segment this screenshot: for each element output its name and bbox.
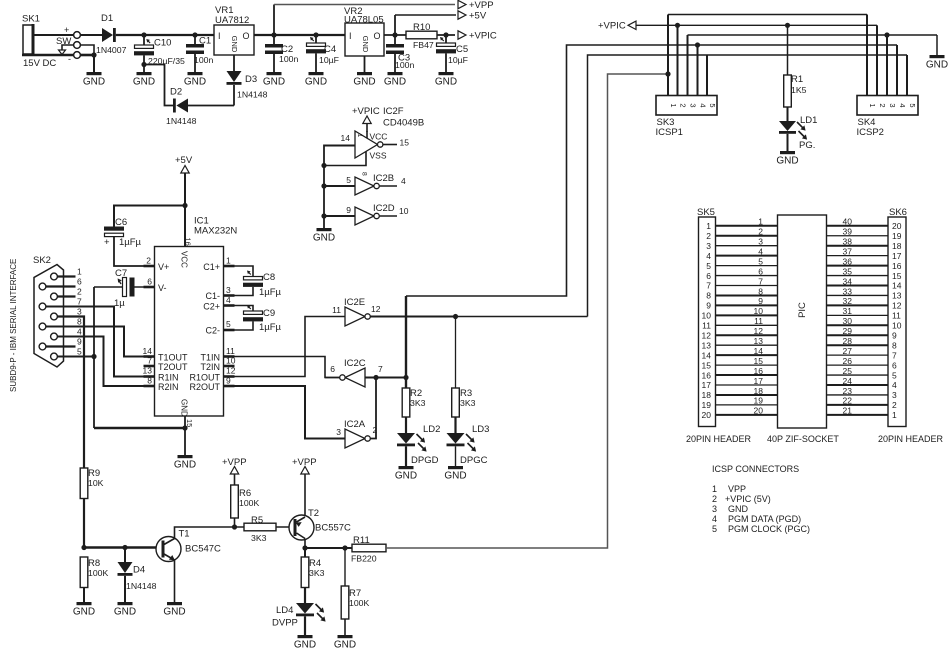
svg-text:2: 2 — [892, 400, 897, 410]
svg-text:GND: GND — [926, 60, 948, 71]
svg-text:1µFµ: 1µFµ — [259, 322, 282, 333]
svg-text:R5: R5 — [251, 515, 263, 526]
svg-text:17: 17 — [702, 380, 712, 390]
svg-text:LD1: LD1 — [800, 115, 817, 126]
capacitor C1 100n — [186, 35, 213, 72]
svg-text:O: O — [374, 31, 381, 41]
op-amp IC2F CD4049B spare gate — [324, 106, 424, 176]
svg-text:7: 7 — [378, 364, 383, 374]
diode D4 1N4148 — [118, 548, 157, 603]
switch SW — [56, 32, 80, 59]
ground LD3 — [444, 466, 466, 482]
svg-text:3K3: 3K3 — [251, 533, 267, 543]
svg-text:T2IN: T2IN — [200, 362, 220, 372]
svg-text:15: 15 — [400, 138, 410, 148]
svg-text:1: 1 — [226, 256, 231, 266]
svg-text:3: 3 — [712, 504, 717, 514]
capacitor C9 1uF — [224, 305, 282, 333]
svg-text:9: 9 — [758, 296, 763, 306]
svg-text:3: 3 — [758, 237, 763, 247]
svg-text:GND: GND — [184, 77, 206, 88]
svg-text:13: 13 — [143, 366, 153, 376]
svg-text:15: 15 — [185, 419, 194, 427]
svg-text:100K: 100K — [88, 568, 108, 578]
svg-text:100n: 100n — [194, 55, 213, 65]
svg-text:T2: T2 — [308, 508, 319, 519]
resistor R4 3K3 — [301, 548, 324, 588]
capacitor C8 1uF — [224, 271, 282, 299]
svg-text:4: 4 — [77, 327, 82, 337]
transistor Q T2 BC557C — [289, 508, 351, 548]
svg-text:C7: C7 — [115, 268, 127, 279]
connector SK3 ICSP1 — [656, 96, 718, 139]
svg-text:FB47: FB47 — [413, 40, 434, 50]
svg-text:100n: 100n — [279, 54, 298, 64]
svg-text:19: 19 — [754, 396, 764, 406]
svg-text:1: 1 — [706, 221, 711, 231]
svg-text:18: 18 — [754, 386, 764, 396]
svg-text:19: 19 — [892, 231, 902, 241]
svg-text:15: 15 — [702, 360, 712, 370]
svg-text:33: 33 — [843, 286, 853, 296]
svg-text:31: 31 — [843, 306, 853, 316]
node C4 — [313, 32, 318, 37]
svg-text:VPP: VPP — [728, 484, 746, 494]
pin 7 T2OUT — [147, 356, 188, 373]
svg-text:GND: GND — [73, 607, 95, 618]
svg-text:5: 5 — [712, 524, 717, 534]
pin 9 R2OUT to IC2A — [189, 376, 345, 439]
svg-text:D2: D2 — [170, 87, 182, 98]
svg-text:8: 8 — [361, 172, 368, 176]
svg-text:15: 15 — [892, 271, 902, 281]
svg-text:5: 5 — [226, 319, 231, 329]
svg-text:R1OUT: R1OUT — [189, 373, 220, 383]
svg-text:14: 14 — [143, 346, 153, 356]
svg-text:GND: GND — [313, 233, 335, 244]
svg-text:10: 10 — [702, 311, 712, 321]
svg-text:5: 5 — [892, 370, 897, 380]
diode D3 1N4148 — [227, 55, 268, 106]
node after D1 — [141, 32, 146, 37]
ground C1 — [184, 72, 206, 88]
svg-text:2: 2 — [706, 231, 711, 241]
ground R8 — [73, 602, 95, 618]
diode D2 1N4148 — [166, 87, 234, 127]
svg-text:39: 39 — [843, 227, 853, 237]
node C5 — [443, 32, 448, 37]
svg-text:FB220: FB220 — [351, 554, 377, 564]
svg-text:D3: D3 — [245, 74, 257, 85]
wire IC2E output PGC — [370, 314, 587, 319]
svg-text:3K3: 3K3 — [460, 398, 476, 408]
svg-text:GND: GND — [174, 460, 196, 471]
svg-text:C1-: C1- — [205, 291, 220, 301]
svg-text:16: 16 — [754, 366, 764, 376]
svg-text:ICSP1: ICSP1 — [656, 127, 683, 138]
svg-text:7: 7 — [892, 350, 897, 360]
wire ground bus C7 to IC1 pin15 — [94, 287, 188, 431]
wire +5V riser — [395, 15, 456, 35]
svg-text:GND: GND — [353, 77, 375, 88]
resistor R5 3K3 — [235, 515, 294, 543]
ground C4 — [305, 72, 327, 88]
svg-text:T1: T1 — [179, 529, 190, 540]
svg-text:C1: C1 — [199, 36, 211, 47]
svg-text:VCC: VCC — [180, 251, 189, 268]
svg-text:22: 22 — [843, 396, 853, 406]
svg-text:LD3: LD3 — [472, 424, 489, 435]
svg-text:T1OUT: T1OUT — [158, 353, 188, 363]
LED LD4 DVPP — [272, 588, 326, 636]
svg-text:+VPIC (5V): +VPIC (5V) — [725, 494, 771, 504]
svg-text:5: 5 — [908, 103, 917, 107]
op-amp IC2C gate — [325, 358, 409, 387]
svg-text:13: 13 — [702, 340, 712, 350]
svg-text:1: 1 — [712, 484, 717, 494]
svg-text:PG.: PG. — [799, 140, 815, 151]
svg-text:D1: D1 — [101, 13, 113, 24]
wire VR2 output — [384, 34, 406, 36]
wire SK5 to ZIF pins 1-20 — [716, 217, 778, 416]
svg-text:BC557C: BC557C — [315, 523, 351, 534]
svg-text:12: 12 — [754, 326, 764, 336]
pin numbers SK2 — [77, 267, 82, 357]
wire SK3 pin risers — [668, 15, 707, 96]
svg-text:100n: 100n — [395, 60, 414, 70]
svg-text:5: 5 — [346, 175, 351, 185]
svg-text:3: 3 — [77, 307, 82, 317]
svg-text:LD4: LD4 — [276, 605, 293, 616]
svg-text:+VPIC: +VPIC — [598, 21, 626, 32]
svg-text:20: 20 — [754, 406, 764, 416]
svg-text:1N4148: 1N4148 — [166, 116, 197, 126]
svg-text:GND: GND — [305, 77, 327, 88]
svg-text:GND: GND — [384, 77, 406, 88]
regulator VR2 UA78L05 — [344, 6, 384, 72]
svg-text:11: 11 — [226, 346, 235, 356]
net arrow +5V at IC1 — [175, 155, 193, 247]
resistor R11 FB220 — [351, 535, 386, 564]
svg-text:C2+: C2+ — [203, 302, 220, 312]
svg-text:I: I — [349, 31, 352, 41]
net arrow +VPIC right — [458, 31, 497, 42]
pin 15 GND wire — [184, 416, 186, 455]
net arrow +5V — [458, 11, 487, 22]
wire SK2 pin1 stub — [57, 275, 75, 277]
svg-text:2: 2 — [758, 227, 763, 237]
svg-text:ICSP CONNECTORS: ICSP CONNECTORS — [712, 464, 799, 474]
svg-text:5: 5 — [708, 103, 717, 107]
svg-text:6: 6 — [77, 277, 82, 287]
ground T1 emitter — [163, 602, 185, 618]
resistor R6 100K — [231, 485, 260, 530]
connector SK1 15V DC input — [22, 14, 56, 70]
svg-text:6: 6 — [706, 271, 711, 281]
pin 10 T2IN stub — [200, 356, 235, 373]
svg-text:R1IN: R1IN — [158, 373, 179, 383]
diode D1 1N4007 — [80, 13, 214, 55]
svg-text:GND: GND — [728, 504, 749, 514]
svg-text:11: 11 — [892, 311, 901, 321]
svg-text:9: 9 — [706, 301, 711, 311]
wire ICSP pin1 top rail — [665, 15, 867, 77]
ground C10 — [133, 72, 155, 88]
pin 14 T1OUT — [143, 346, 188, 363]
svg-text:8: 8 — [892, 340, 897, 350]
svg-text:25: 25 — [843, 366, 853, 376]
svg-text:14: 14 — [754, 346, 764, 356]
svg-text:40: 40 — [843, 217, 853, 227]
wire SK2 pin4 to R2IN — [57, 337, 154, 387]
svg-text:32: 32 — [843, 296, 853, 306]
svg-text:V+: V+ — [158, 262, 169, 272]
svg-text:C1+: C1+ — [203, 262, 220, 272]
svg-text:3: 3 — [888, 103, 897, 107]
pin 4 C2+ — [203, 295, 253, 312]
svg-text:1: 1 — [669, 103, 678, 107]
svg-text:14: 14 — [341, 133, 351, 143]
ground SW/SK1 — [83, 72, 105, 88]
wire PGC riser — [588, 55, 908, 317]
svg-text:DPGD: DPGD — [411, 455, 439, 466]
svg-text:10: 10 — [754, 306, 764, 316]
op-amp IC2A gate — [336, 378, 377, 449]
svg-text:1µ: 1µ — [114, 298, 125, 309]
svg-text:3: 3 — [689, 103, 698, 107]
svg-text:13: 13 — [892, 291, 902, 301]
svg-text:10K: 10K — [88, 478, 104, 488]
svg-text:2: 2 — [712, 494, 717, 504]
svg-text:100K: 100K — [239, 498, 259, 508]
svg-text:12: 12 — [371, 304, 381, 314]
LED LD2 DPGD — [397, 417, 440, 466]
svg-text:C8: C8 — [263, 272, 275, 283]
svg-text:24: 24 — [843, 376, 853, 386]
LED LD3 DPGC — [447, 417, 490, 466]
svg-text:28: 28 — [843, 336, 853, 346]
svg-text:20PIN HEADER: 20PIN HEADER — [878, 434, 944, 444]
svg-text:IC2F: IC2F — [383, 106, 404, 117]
capacitor C5 10uF — [436, 35, 468, 72]
svg-text:1: 1 — [868, 103, 877, 107]
node C1 — [192, 32, 197, 37]
svg-text:GND: GND — [361, 36, 370, 53]
svg-text:GND: GND — [133, 77, 155, 88]
svg-text:GND: GND — [435, 77, 457, 88]
wire C10 node to D2 — [144, 65, 173, 106]
svg-text:V-: V- — [158, 283, 167, 293]
svg-text:10: 10 — [892, 321, 902, 331]
svg-text:11: 11 — [754, 316, 763, 326]
svg-text:IC2A: IC2A — [344, 419, 366, 430]
svg-text:11: 11 — [702, 321, 711, 331]
svg-text:1: 1 — [892, 410, 897, 420]
svg-text:UA78L05: UA78L05 — [344, 15, 384, 26]
wire SK2 pin3 to R9 — [57, 317, 84, 469]
capacitor C4 10uF — [306, 35, 339, 72]
svg-text:MAX232N: MAX232N — [194, 226, 237, 237]
svg-text:R11: R11 — [353, 535, 370, 546]
svg-text:I: I — [218, 31, 221, 41]
svg-text:IC2C: IC2C — [344, 358, 366, 369]
svg-text:+: + — [104, 237, 110, 248]
svg-text:T1IN: T1IN — [200, 353, 220, 363]
svg-text:16: 16 — [184, 238, 193, 246]
svg-text:15: 15 — [754, 356, 764, 366]
net arrow +VPIC left top — [598, 21, 877, 32]
svg-text:15V DC: 15V DC — [23, 58, 56, 69]
svg-text:GND: GND — [776, 156, 798, 167]
connector SK6 20pin header — [888, 207, 907, 427]
resistor R7 100K — [341, 548, 369, 635]
svg-text:8: 8 — [706, 291, 711, 301]
svg-text:+VPP: +VPP — [469, 0, 494, 11]
svg-text:4: 4 — [892, 380, 897, 390]
wire SK1 plus to switch — [33, 25, 74, 35]
wire SK2 pin6 stub — [46, 285, 76, 287]
svg-text:D4: D4 — [133, 565, 145, 576]
svg-text:7: 7 — [147, 356, 152, 366]
capacitor C10 220uF/35 — [134, 35, 185, 72]
svg-text:36: 36 — [843, 256, 853, 266]
svg-text:PGM CLOCK (PGC): PGM CLOCK (PGC) — [728, 524, 810, 534]
svg-text:9: 9 — [892, 330, 897, 340]
svg-text:2: 2 — [77, 287, 82, 297]
svg-text:1: 1 — [356, 134, 363, 138]
svg-text:VSS: VSS — [370, 151, 387, 161]
node VPP takeoff — [271, 32, 276, 37]
svg-text:O: O — [243, 31, 250, 41]
svg-text:40P ZIF-SOCKET: 40P ZIF-SOCKET — [767, 434, 839, 444]
svg-text:19: 19 — [702, 400, 712, 410]
svg-text:7: 7 — [77, 297, 82, 307]
svg-text:+VPIC: +VPIC — [352, 106, 380, 117]
op-amp U IC1 MAX232N body — [144, 216, 238, 428]
svg-text:SUBD9-P - IBM SERIAL INTERFACE: SUBD9-P - IBM SERIAL INTERFACE — [9, 259, 18, 392]
svg-text:+VPP: +VPP — [292, 457, 317, 468]
svg-text:1N4148: 1N4148 — [237, 90, 268, 100]
svg-text:C2-: C2- — [205, 326, 220, 336]
svg-text:DVPP: DVPP — [272, 618, 298, 629]
svg-text:3: 3 — [226, 285, 231, 295]
wire R3 feed — [455, 317, 457, 389]
svg-text:9: 9 — [226, 376, 231, 386]
svg-text:GND: GND — [444, 471, 466, 482]
svg-text:GND: GND — [334, 640, 356, 651]
svg-text:1: 1 — [758, 217, 763, 227]
svg-text:3K3: 3K3 — [410, 398, 426, 408]
svg-text:CD4049B: CD4049B — [383, 118, 424, 129]
label ICSP CONNECTORS legend — [712, 464, 810, 534]
svg-text:+VPIC: +VPIC — [469, 31, 497, 42]
svg-text:100K: 100K — [349, 598, 369, 608]
svg-text:C10: C10 — [154, 38, 171, 49]
svg-text:8: 8 — [147, 376, 152, 386]
svg-text:1µFµ: 1µFµ — [119, 237, 142, 248]
svg-text:VCC: VCC — [370, 132, 388, 142]
svg-text:13: 13 — [754, 336, 764, 346]
wire SK2 pin2 stub — [57, 295, 75, 297]
svg-text:14: 14 — [892, 281, 902, 291]
ground R7 — [334, 635, 356, 651]
svg-text:4: 4 — [401, 176, 406, 186]
wire SK2 pin5 ground — [57, 354, 96, 359]
capacitor C6 1uF — [104, 206, 185, 267]
svg-text:R2IN: R2IN — [158, 382, 179, 392]
ground IC2 spare inputs — [313, 228, 335, 244]
connector SK4 ICSP2 — [857, 96, 919, 139]
svg-text:PGM DATA (PGD): PGM DATA (PGD) — [728, 514, 801, 524]
capacitor C2 100n — [265, 35, 298, 72]
svg-text:4: 4 — [712, 514, 717, 524]
svg-text:18: 18 — [892, 241, 902, 251]
svg-text:GND: GND — [180, 399, 189, 417]
net arrow +VPP at R6 — [222, 457, 247, 485]
svg-text:20PIN HEADER: 20PIN HEADER — [686, 434, 752, 444]
connector SK5 20pin header — [697, 207, 716, 427]
svg-text:+5V: +5V — [469, 11, 487, 22]
ground D4 — [114, 602, 136, 618]
resistor R1 1K5 — [784, 25, 807, 121]
svg-text:R1: R1 — [791, 74, 803, 85]
wire ICSP pin3 ground rail — [688, 32, 938, 55]
svg-text:-: - — [68, 54, 71, 64]
svg-text:35: 35 — [843, 266, 853, 276]
svg-text:9: 9 — [77, 337, 82, 347]
svg-text:4: 4 — [699, 103, 708, 107]
wire spare gate ground bus — [321, 145, 326, 229]
svg-text:3: 3 — [892, 390, 897, 400]
svg-text:2: 2 — [878, 103, 887, 107]
svg-text:6: 6 — [330, 364, 335, 374]
svg-text:DPGC: DPGC — [460, 455, 488, 466]
svg-text:+: + — [64, 25, 69, 35]
svg-text:29: 29 — [843, 326, 853, 336]
svg-text:GND: GND — [163, 607, 185, 618]
op-amp U 40P ZIF socket PIC — [778, 215, 827, 428]
svg-text:8: 8 — [77, 317, 82, 327]
pin 6 V- — [147, 277, 166, 294]
svg-text:37: 37 — [843, 246, 853, 256]
svg-text:SK2: SK2 — [33, 255, 51, 266]
resistor R2 3K3 — [402, 388, 425, 417]
svg-text:10µF: 10µF — [448, 55, 468, 65]
svg-text:1K5: 1K5 — [791, 85, 807, 95]
svg-text:11: 11 — [332, 305, 341, 315]
svg-text:14: 14 — [702, 350, 712, 360]
resistor R8 100K — [80, 557, 108, 602]
svg-text:21: 21 — [843, 406, 853, 416]
svg-text:ICSP2: ICSP2 — [857, 127, 884, 138]
svg-text:LD2: LD2 — [423, 424, 440, 435]
svg-text:1µFµ: 1µFµ — [259, 287, 282, 298]
svg-text:5: 5 — [706, 261, 711, 271]
svg-text:20: 20 — [892, 221, 902, 231]
ground ICSP rail — [926, 55, 948, 71]
ground LD1 — [776, 151, 798, 167]
pin 2 V+ — [146, 256, 169, 273]
transistor Q T1 BC547C — [156, 527, 235, 602]
svg-text:C9: C9 — [263, 308, 275, 319]
ground C2 — [263, 72, 285, 88]
ground C3 — [384, 72, 406, 88]
svg-text:3K3: 3K3 — [309, 568, 325, 578]
svg-text:16: 16 — [892, 261, 902, 271]
svg-text:2: 2 — [679, 103, 688, 107]
net arrow +VPP at T2 — [292, 457, 317, 517]
ground LD2 — [395, 466, 417, 482]
